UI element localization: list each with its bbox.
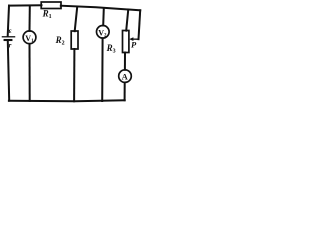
svg-text:R1: R1 xyxy=(42,8,52,20)
wire slider arrow shaft xyxy=(132,38,139,40)
wire top horizontal left segment xyxy=(9,4,42,6)
wire bottom horizontal xyxy=(9,100,125,101)
battery cell plates xyxy=(2,37,14,40)
resistor R2 xyxy=(71,31,78,49)
svg-text:r: r xyxy=(9,41,12,49)
wire V1 branch upper xyxy=(29,6,31,31)
resistor R1 xyxy=(41,2,61,9)
wire V2 branch upper xyxy=(102,8,105,25)
ammeter A xyxy=(119,70,132,83)
voltmeter V1 xyxy=(23,31,36,44)
svg-text:A: A xyxy=(122,71,129,81)
wire R3 branch upper xyxy=(126,10,128,30)
wire left edge lower xyxy=(8,41,9,100)
slider arrowhead P xyxy=(129,37,133,41)
wire right edge (slider feed) xyxy=(139,10,141,39)
wire R2 branch lower xyxy=(73,49,75,101)
svg-text:V1: V1 xyxy=(25,34,34,44)
svg-text:ε: ε xyxy=(9,27,12,35)
wire R3 to ammeter xyxy=(124,53,126,70)
wire ammeter to bottom xyxy=(124,83,126,101)
wire top horizontal right segment xyxy=(61,6,140,11)
voltmeter V2 xyxy=(97,26,110,39)
wire V1 branch lower xyxy=(29,44,31,101)
svg-text:R2: R2 xyxy=(55,35,65,47)
svg-text:R3: R3 xyxy=(106,43,116,55)
svg-text:P: P xyxy=(131,40,137,50)
svg-text:V2: V2 xyxy=(98,29,107,39)
resistor R3 (rheostat body) xyxy=(123,31,129,53)
wire left edge upper (battery top lead) xyxy=(8,6,9,36)
wire R2 branch upper xyxy=(75,7,78,31)
wire V2 branch lower xyxy=(101,38,103,101)
